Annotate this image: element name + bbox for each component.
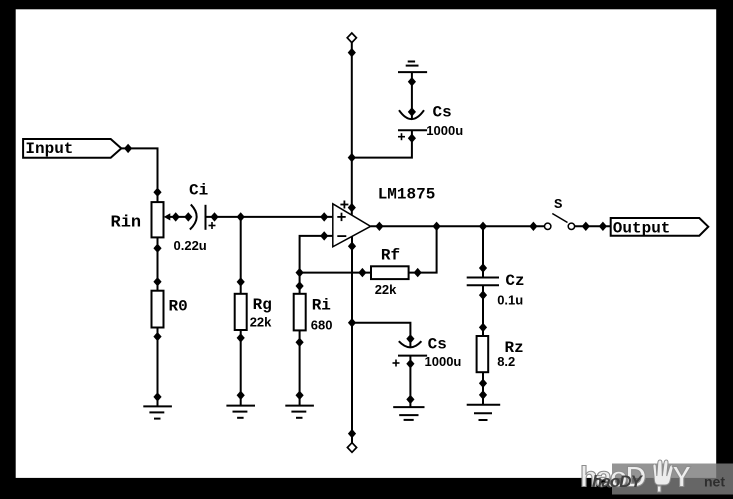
ground under R0 [143, 406, 172, 418]
watermark haoDY.net [580, 460, 733, 495]
junction Rg tap [237, 212, 245, 221]
wire op-amp output [371, 225, 545, 227]
junction Rg bottom pin [237, 333, 245, 342]
wire op-amp V- down to bottom terminal [351, 236, 353, 443]
svg-text:Ri: Ri [312, 296, 331, 314]
junction Cz bottom pin [479, 290, 487, 299]
wire Rf branch [300, 272, 371, 274]
junction Rin bottom pin [153, 244, 161, 253]
junction Ci right [210, 212, 218, 221]
junction feedback node [296, 268, 304, 277]
junction R0 ground node [153, 392, 161, 401]
wire top terminal to op-amp V+ [351, 42, 353, 215]
wire input to Rin top [121, 148, 157, 202]
svg-text:Rin: Rin [111, 214, 142, 233]
svg-text:Output: Output [613, 219, 671, 237]
resistor Rg [235, 294, 247, 330]
wire Cz branch down [482, 226, 484, 277]
wire Ri bottom to ground [299, 330, 301, 405]
junction Ri top pin [296, 281, 304, 290]
junction before switch [529, 222, 537, 231]
junction Ri bottom pin [296, 338, 304, 347]
wire Ci to op-amp plus input [206, 216, 333, 218]
svg-text:1000u: 1000u [426, 123, 463, 138]
wire Cs top to supply symbol [411, 72, 413, 119]
capacitor Ci [190, 205, 216, 230]
svg-text:Cs: Cs [428, 335, 447, 353]
wire R0 bottom to ground [157, 328, 159, 407]
junction op-amp V+ pin [348, 203, 356, 212]
node top supply terminal [347, 33, 356, 43]
resistor Ri [294, 294, 306, 331]
junction Rz ground node [479, 390, 487, 399]
svg-text:0.1u: 0.1u [497, 293, 523, 308]
junction Cs top branch node [348, 153, 356, 162]
junction op-amp output pin [375, 222, 383, 231]
junction Rz bottom pin [479, 379, 487, 388]
switch S [545, 214, 575, 230]
junction Ci left [184, 212, 192, 221]
junction Ri ground node [296, 391, 304, 400]
junction after switch [582, 222, 590, 231]
svg-text:Cs: Cs [433, 103, 452, 121]
svg-text:0.22u: 0.22u [174, 238, 207, 253]
junction Cs bottom plate pin [406, 359, 414, 368]
ground under Rg [226, 406, 255, 418]
junction op-amp minus pin [320, 231, 328, 240]
svg-text:680: 680 [311, 318, 333, 333]
junction op-amp V- pin [348, 242, 356, 251]
wire Cs top branch [352, 130, 412, 157]
capacitor Cs top [398, 110, 427, 140]
junction Cz branch node [479, 222, 487, 231]
wire Cz to Rz [482, 285, 484, 336]
svg-text:S: S [554, 197, 562, 213]
svg-text:Cz: Cz [505, 272, 524, 290]
junction below supply bars [408, 77, 416, 86]
junction Rz top pin [479, 323, 487, 332]
svg-text:22k: 22k [250, 314, 272, 329]
svg-text:Input: Input [25, 140, 73, 158]
potentiometer Rin [152, 202, 191, 237]
wire Cs bottom branch [352, 323, 410, 348]
node bottom supply terminal [347, 443, 356, 453]
resistor Rf [371, 266, 409, 279]
svg-text:Y: Y [672, 461, 691, 493]
junction Cz top pin [479, 263, 487, 272]
wire Rg tap down [240, 217, 242, 294]
capacitor Cz [467, 278, 499, 286]
junction Rin top pin [153, 188, 161, 197]
svg-text:Rg: Rg [253, 296, 272, 314]
junction wiper node [172, 212, 180, 221]
junction above bottom terminal [348, 429, 356, 438]
wire Rz to ground [482, 372, 484, 405]
junction top rail dot [348, 48, 356, 57]
junction op-amp plus pin [320, 212, 328, 221]
ground under Cs bottom [393, 407, 424, 420]
junction Cs ground node [406, 395, 414, 404]
junction Cs bottom branch node [348, 318, 356, 327]
junction before output port [599, 222, 607, 231]
negative supply symbol [398, 62, 427, 73]
junction Rf right pin [414, 268, 422, 277]
ground under Rz [467, 405, 501, 420]
node Input port [23, 139, 121, 158]
wire Cs bottom to ground [409, 356, 411, 408]
junction Rf left pin [358, 268, 366, 277]
svg-text:haoDY: haoDY [592, 472, 644, 491]
junction R0 top pin [153, 277, 161, 286]
svg-text:8.2: 8.2 [497, 354, 515, 369]
wire switch to output port [575, 225, 611, 227]
svg-text:1000u: 1000u [425, 354, 462, 369]
junction Rg ground node [237, 391, 245, 400]
svg-text:Ci: Ci [189, 182, 208, 200]
wire Rin bottom to R0 top [157, 237, 159, 290]
wire Rg bottom to ground [240, 330, 242, 406]
ground under Ri [285, 406, 314, 418]
svg-text:net: net [704, 474, 725, 490]
junction Rf riser node [433, 222, 441, 231]
svg-text:22k: 22k [375, 282, 397, 297]
svg-text:Rf: Rf [381, 247, 400, 265]
junction Cs bottom arc dot [406, 334, 414, 343]
svg-text:LM1875: LM1875 [378, 185, 436, 203]
op-amp U1 LM1875 [333, 201, 371, 247]
svg-text:R0: R0 [169, 298, 188, 316]
junction Cs top lower pin [408, 134, 416, 143]
wire op-amp minus input to Ri [300, 236, 333, 294]
junction R0 bottom pin [153, 332, 161, 341]
capacitor Cs bottom [393, 341, 428, 366]
junction input node [124, 144, 132, 153]
junction Rg top pin [237, 277, 245, 286]
node Output port [611, 218, 709, 237]
resistor Rz [477, 336, 489, 372]
junction Cs arc top [408, 107, 416, 116]
wire Rf right to output line [409, 226, 437, 272]
resistor R0 [152, 291, 164, 328]
